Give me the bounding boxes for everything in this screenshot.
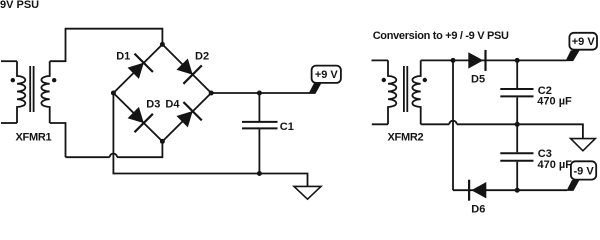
svg-text:Conversion to +9 / -9 V PSU: Conversion to +9 / -9 V PSU: [373, 30, 509, 42]
svg-text:C1: C1: [280, 121, 294, 133]
svg-text:D3: D3: [146, 99, 160, 111]
svg-text:D2: D2: [195, 51, 209, 63]
svg-text:470 µF: 470 µF: [538, 159, 573, 171]
svg-text:9V PSU: 9V PSU: [0, 0, 39, 11]
svg-text:D5: D5: [471, 74, 485, 86]
svg-text:D1: D1: [116, 51, 130, 63]
svg-text:+9 V: +9 V: [315, 69, 339, 81]
svg-text:+9 V: +9 V: [572, 36, 596, 48]
svg-text:XFMR1: XFMR1: [16, 131, 52, 143]
svg-text:-9 V: -9 V: [574, 165, 595, 177]
svg-text:470 µF: 470 µF: [537, 95, 572, 107]
svg-text:XFMR2: XFMR2: [388, 131, 424, 143]
svg-text:D6: D6: [471, 203, 485, 213]
svg-text:D4: D4: [165, 99, 180, 111]
